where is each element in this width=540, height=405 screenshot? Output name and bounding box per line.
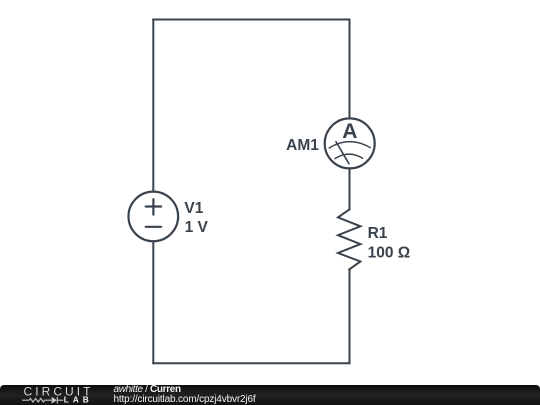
wire bottom [153,362,349,364]
wire right lower [349,269,351,363]
wire left lower [152,241,154,363]
svg-text:1 V: 1 V [185,219,209,236]
voltage source V1 [129,192,179,242]
footer author/title text [114,385,181,395]
svg-text:V1: V1 [184,200,203,217]
wire left upper (node A) [152,20,154,192]
resistor R1 zigzag [338,210,360,270]
footer bar [0,385,540,405]
CircuitLab logo [0,384,110,405]
wire top [153,19,349,21]
footer url text [114,395,256,405]
wire right middle (ammeter to resistor) [349,168,351,209]
ammeter AM1 [325,118,375,168]
svg-text:AM1: AM1 [286,137,319,154]
svg-text:A: A [342,120,357,143]
svg-text:LAB: LAB [64,395,93,405]
svg-text:100 Ω: 100 Ω [368,244,411,261]
svg-text:R1: R1 [368,225,388,242]
wire right upper [349,20,351,119]
